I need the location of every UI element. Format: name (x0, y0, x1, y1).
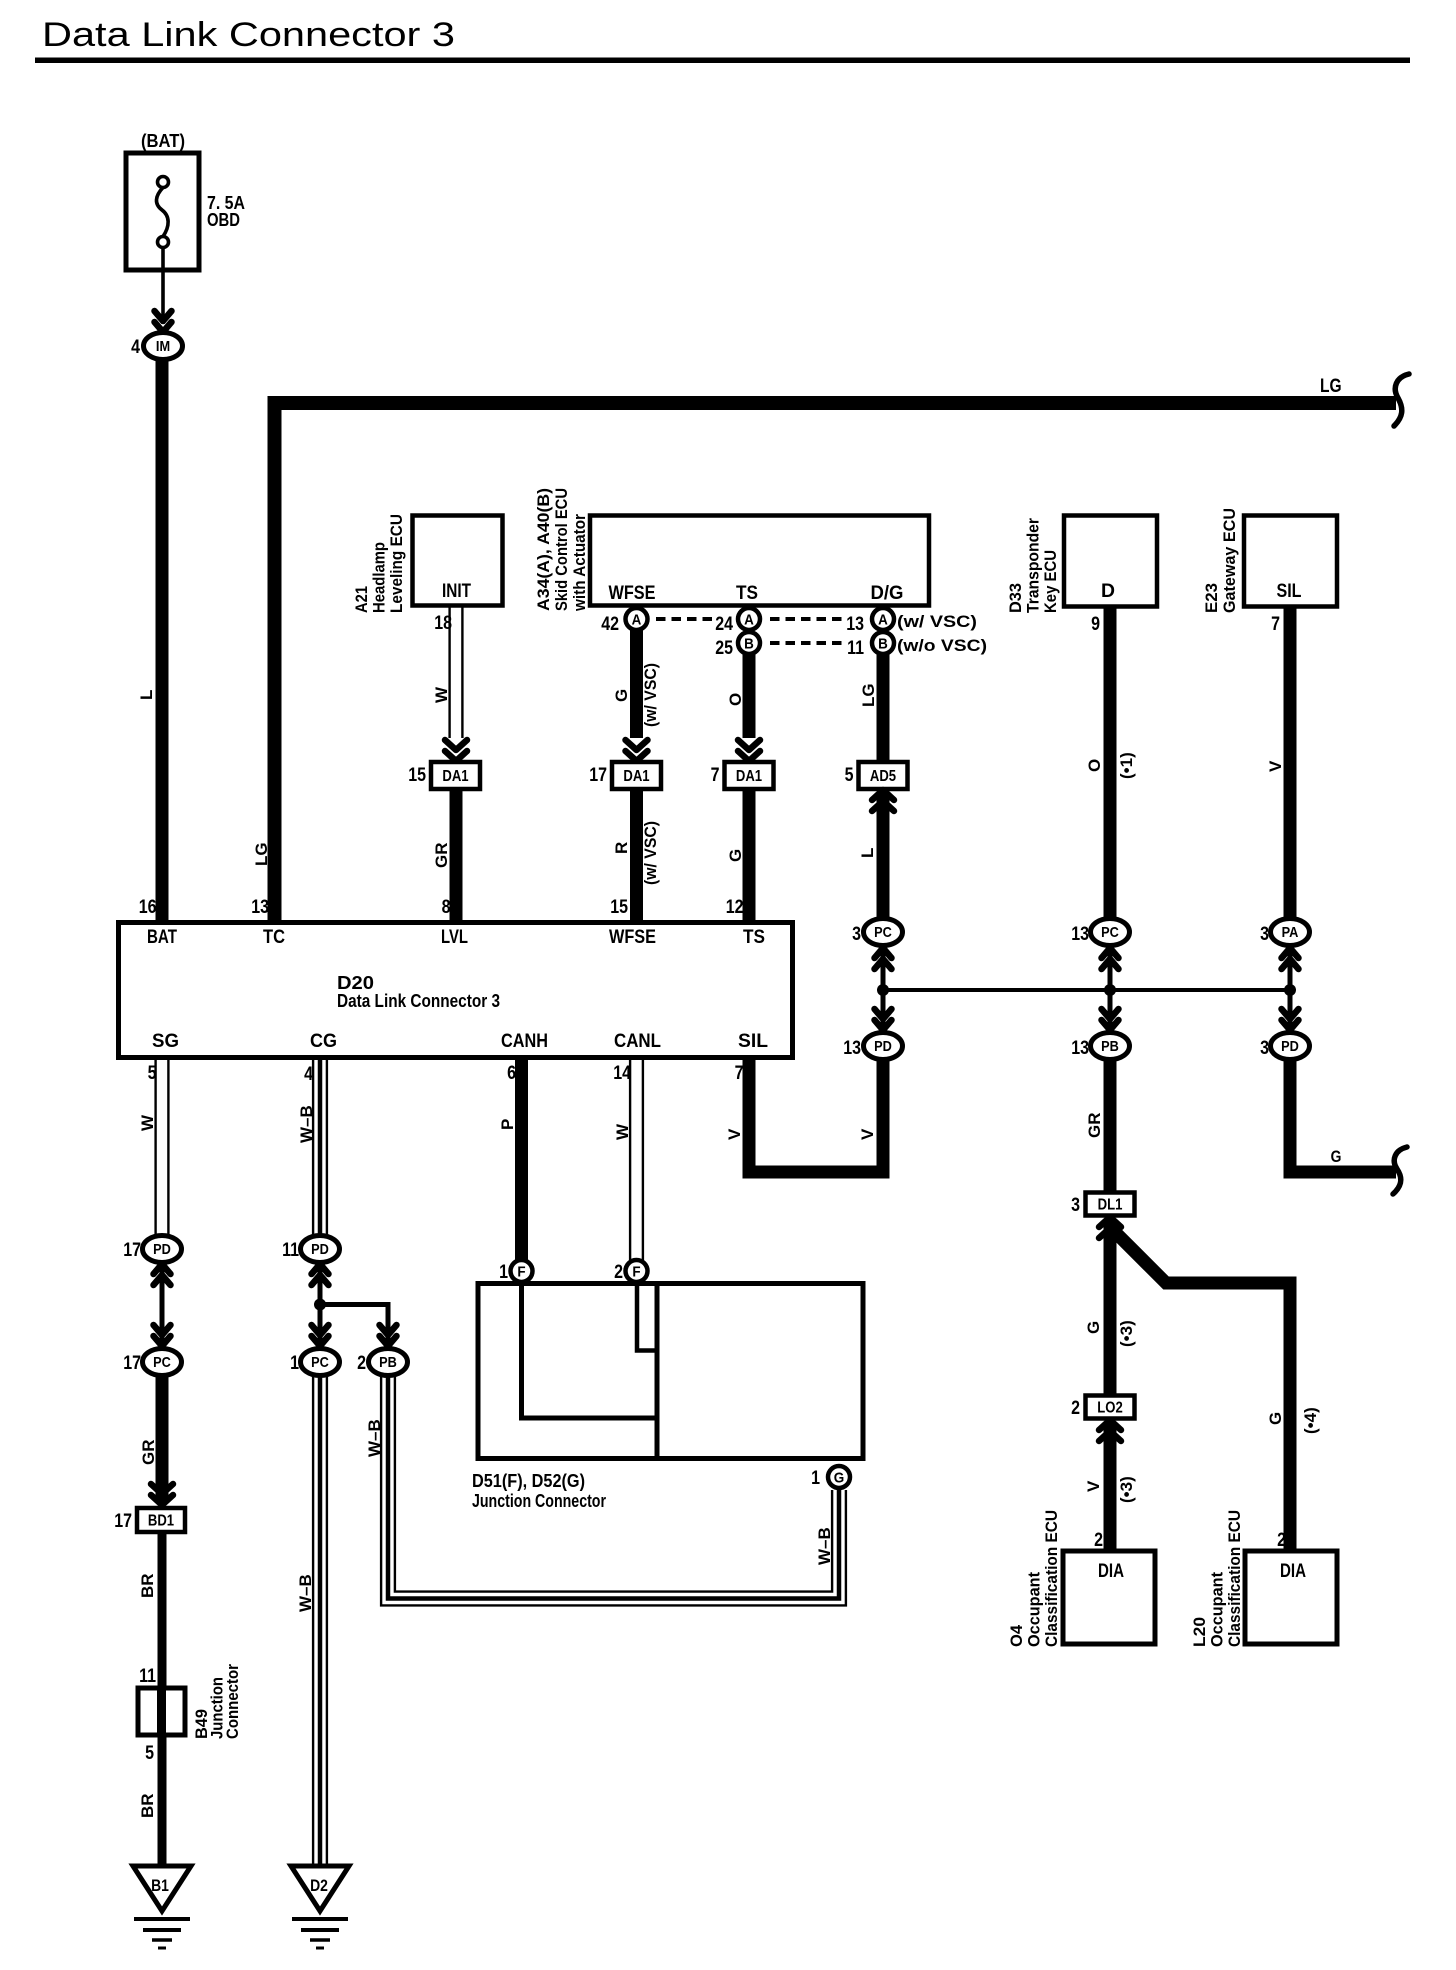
svg-text:O: O (1085, 759, 1104, 772)
svg-text:17: 17 (589, 764, 607, 786)
svg-text:(•3): (•3) (1117, 1476, 1136, 1503)
svg-text:Data Link Connector 3: Data Link Connector 3 (42, 16, 455, 54)
connector 11 PD (301, 1236, 340, 1263)
junction dot D33 col (1104, 984, 1116, 996)
svg-text:2: 2 (1094, 1529, 1103, 1551)
svg-text:PC: PC (1101, 924, 1119, 941)
fuse element symbol (156, 177, 168, 248)
svg-text:4: 4 (131, 336, 140, 358)
svg-text:Classification ECU: Classification ECU (1225, 1510, 1244, 1647)
svg-text:V: V (858, 1128, 877, 1140)
svg-text:L: L (137, 690, 156, 700)
wire O (TS to DA1) (743, 654, 756, 738)
svg-text:2: 2 (614, 1261, 623, 1283)
svg-text:2: 2 (357, 1352, 366, 1374)
arrow into DA1 (WFSE) (626, 740, 648, 761)
svg-text:11: 11 (282, 1239, 299, 1261)
svg-text:A: A (878, 612, 888, 629)
junction connector D51/D52 box (478, 1284, 863, 1459)
svg-text:13: 13 (251, 896, 269, 918)
ground B1 (133, 1866, 191, 1911)
svg-text:W: W (613, 1123, 632, 1140)
svg-text:BD1: BD1 (148, 1513, 174, 1530)
svg-text:9: 9 (1091, 613, 1100, 635)
svg-text:17: 17 (114, 1510, 132, 1532)
arrow into DA1 (LVL) (445, 740, 467, 761)
svg-text:1: 1 (499, 1261, 508, 1283)
svg-text:Classification ECU: Classification ECU (1042, 1510, 1061, 1647)
svg-text:Occupant: Occupant (1208, 1572, 1227, 1647)
svg-text:PD: PD (874, 1038, 892, 1055)
wire fuse to IM connector (161, 247, 165, 324)
wire branch diagonal to L20 (1110, 1227, 1290, 1551)
link 17PD to 17PC (160, 1266, 165, 1346)
svg-text:G: G (726, 849, 745, 862)
svg-text:1: 1 (290, 1352, 299, 1374)
wire LG bus (top horizontal to TC) (275, 403, 1397, 922)
svg-text:LG: LG (252, 842, 271, 866)
svg-text:R: R (612, 842, 631, 854)
connector 13 PB (1091, 1033, 1130, 1060)
svg-text:4: 4 (304, 1063, 313, 1085)
link PC to bus (D33 col) (1108, 947, 1113, 1031)
svg-text:15: 15 (610, 896, 628, 918)
svg-text:G: G (1331, 1147, 1342, 1166)
svg-text:LG: LG (1320, 376, 1342, 397)
svg-text:W–B: W–B (815, 1527, 834, 1565)
title underline (35, 58, 1410, 64)
svg-text:A34(A), A40(B): A34(A), A40(B) (534, 488, 553, 611)
svg-text:12: 12 (726, 896, 744, 918)
svg-text:16: 16 (139, 896, 157, 918)
svg-text:24: 24 (715, 613, 733, 635)
wire V *3 (LO2 to O4 DIA) (1104, 1424, 1117, 1551)
svg-text:13: 13 (846, 613, 864, 635)
connector 13 PD (864, 1033, 903, 1060)
G continuation hook (1393, 1147, 1407, 1194)
svg-text:TC: TC (263, 926, 285, 948)
svg-text:V: V (725, 1128, 744, 1140)
svg-text:GR: GR (1085, 1113, 1104, 1139)
svg-text:A21: A21 (352, 586, 371, 613)
svg-text:SIL: SIL (738, 1030, 768, 1052)
ECU box A21 Headlamp Leveling ECU (413, 516, 503, 606)
svg-text:DIA: DIA (1098, 1560, 1124, 1582)
svg-text:V: V (1266, 760, 1285, 772)
svg-text:1: 1 (811, 1467, 820, 1489)
svg-text:14: 14 (613, 1062, 631, 1084)
connector 4 IM (144, 333, 183, 360)
wire L (BAT to D20 pin16) (156, 358, 169, 922)
arrow down into 3 PD (1282, 1009, 1299, 1030)
svg-text:PA: PA (1282, 924, 1299, 941)
ECU box O4 Occupant Classification ECU (1063, 1551, 1155, 1644)
svg-text:G: G (834, 1470, 845, 1487)
svg-text:PC: PC (874, 924, 892, 941)
arrow up into 17 PD (154, 1264, 171, 1285)
svg-text:BR: BR (138, 1573, 157, 1598)
svg-text:PC: PC (311, 1354, 329, 1371)
svg-text:D2: D2 (310, 1876, 328, 1895)
svg-text:DA1: DA1 (442, 768, 468, 785)
connector 2 PB (369, 1349, 408, 1376)
svg-text:CANH: CANH (501, 1030, 548, 1052)
svg-text:PD: PD (1281, 1038, 1299, 1055)
svg-text:42: 42 (601, 613, 619, 635)
svg-text:B1: B1 (151, 1876, 169, 1895)
junction dot CG branch (314, 1299, 326, 1311)
svg-text:with Actuator: with Actuator (570, 514, 589, 612)
svg-text:PC: PC (153, 1354, 171, 1371)
svg-text:Transponder: Transponder (1024, 518, 1043, 613)
svg-text:Gateway ECU: Gateway ECU (1220, 508, 1239, 613)
wire O (D33 to PC) (1104, 607, 1117, 919)
junction block 5 AD5 (859, 762, 908, 789)
svg-text:LVL: LVL (441, 926, 468, 948)
junction block 17 DA1 (612, 762, 661, 789)
connector 1 F (511, 1260, 533, 1282)
svg-text:O: O (726, 693, 745, 706)
svg-text:O4: O4 (1007, 1624, 1026, 1647)
svg-text:B: B (878, 636, 888, 653)
wire G (3 PD to right) (1290, 1060, 1396, 1172)
ground D2 (291, 1866, 349, 1911)
svg-text:15: 15 (408, 764, 426, 786)
arrow into BD1 (151, 1484, 173, 1505)
svg-text:AD5: AD5 (870, 768, 896, 785)
svg-text:Headlamp: Headlamp (370, 542, 389, 613)
svg-text:6: 6 (507, 1062, 516, 1084)
arrow down into 1 PC (312, 1325, 329, 1346)
arrow up into 3 PA (1282, 948, 1299, 969)
svg-text:LG: LG (859, 683, 878, 707)
svg-text:SG: SG (152, 1030, 179, 1052)
svg-text:11: 11 (139, 1665, 156, 1687)
svg-text:(•4): (•4) (1301, 1407, 1320, 1434)
wire LG (D/G to AD5) (877, 654, 890, 764)
svg-text:G: G (1084, 1321, 1103, 1334)
svg-text:D/G: D/G (871, 582, 904, 604)
svg-text:A: A (744, 612, 754, 629)
connector 13 PC (1091, 919, 1130, 946)
svg-text:2: 2 (1071, 1397, 1080, 1419)
svg-text:GR: GR (432, 843, 451, 869)
junction block 3 DL1 (1086, 1193, 1135, 1216)
svg-text:8: 8 (442, 896, 451, 918)
svg-text:SIL: SIL (1277, 580, 1302, 602)
svg-text:3: 3 (852, 923, 861, 945)
svg-text:V: V (1084, 1480, 1103, 1492)
svg-text:(w/o VSC): (w/o VSC) (897, 636, 987, 655)
svg-text:Key ECU: Key ECU (1041, 550, 1060, 613)
svg-text:B: B (744, 636, 754, 653)
wire BR (BD1 to B49) (158, 1532, 167, 1690)
svg-text:D: D (1101, 580, 1115, 602)
arrow up into DL1 (1099, 1217, 1121, 1238)
svg-text:(BAT): (BAT) (141, 131, 185, 151)
svg-text:W: W (432, 686, 451, 703)
svg-text:3: 3 (1071, 1194, 1080, 1216)
svg-text:13: 13 (843, 1037, 861, 1059)
svg-text:5: 5 (845, 764, 854, 786)
svg-text:CG: CG (310, 1030, 337, 1052)
svg-text:Connector: Connector (223, 1664, 242, 1739)
fuse OBD 7.5A box (126, 153, 199, 270)
junction connector internal divider (655, 1286, 660, 1456)
svg-text:D20: D20 (337, 973, 374, 993)
connector 1 PC (301, 1349, 340, 1376)
svg-text:PB: PB (379, 1354, 397, 1371)
arrow down into 17 PC (154, 1325, 171, 1346)
connector 3 PC (864, 919, 903, 946)
wire W CANL (to 2 F) (630, 1060, 643, 1260)
svg-text:LO2: LO2 (1097, 1400, 1123, 1417)
wire L (AD5 to PC) (877, 793, 890, 919)
arrow up into 11 PD (312, 1264, 329, 1285)
svg-text:GR: GR (139, 1440, 158, 1466)
connector box D20 Data Link Connector 3 (119, 923, 793, 1058)
arrow into DA1 (TS) (738, 740, 760, 761)
svg-text:F: F (517, 1264, 525, 1281)
svg-text:17: 17 (123, 1352, 141, 1374)
svg-text:OBD: OBD (207, 210, 240, 230)
ECU box D33 Transponder Key ECU (1064, 516, 1157, 607)
wire W-B (1 PC to ground D2) (313, 1376, 327, 1868)
dashed link 24A-13A (770, 617, 843, 621)
svg-text:L20: L20 (1190, 1617, 1209, 1647)
svg-text:WFSE: WFSE (609, 926, 656, 948)
wire W (SG to 17 PD) (156, 1060, 169, 1236)
svg-text:13: 13 (1071, 1037, 1089, 1059)
svg-text:E23: E23 (1202, 583, 1221, 613)
connector 17 PC (143, 1349, 182, 1376)
svg-text:D51(F), D52(G): D51(F), D52(G) (472, 1471, 585, 1491)
svg-text:F: F (632, 1264, 640, 1281)
junction block 7 DA1 (725, 762, 774, 789)
svg-text:2: 2 (1277, 1529, 1286, 1551)
arrow up into LO2 (1099, 1420, 1121, 1441)
svg-text:25: 25 (715, 637, 733, 659)
svg-text:(•1): (•1) (1117, 752, 1136, 779)
arrow up into 13 PC (1102, 948, 1119, 969)
svg-text:5: 5 (145, 1742, 154, 1764)
svg-text:(w/ VSC): (w/ VSC) (641, 821, 660, 885)
wire W (INIT to DA1) (450, 606, 463, 738)
svg-text:DA1: DA1 (623, 768, 649, 785)
wire V (E23 to PA) (1284, 607, 1297, 919)
svg-text:A: A (632, 612, 642, 629)
branch wire to 2 PB (320, 1305, 388, 1347)
dashed link 25B-11B (770, 641, 843, 645)
dashed link 42A-24A (656, 617, 716, 621)
connector 3 PD (1271, 1033, 1310, 1060)
svg-text:11: 11 (847, 637, 864, 659)
svg-text:Leveling ECU: Leveling ECU (387, 514, 406, 613)
arrow into IM (155, 311, 172, 332)
svg-text:7: 7 (711, 764, 720, 786)
svg-text:PD: PD (153, 1241, 171, 1258)
svg-text:3: 3 (1260, 1037, 1269, 1059)
svg-text:Skid Control ECU: Skid Control ECU (552, 488, 571, 611)
arrow down into 13 PD (875, 1009, 892, 1030)
svg-text:IM: IM (156, 338, 170, 355)
ECU box E23 Gateway ECU (1244, 516, 1337, 607)
arrow down into 2 PB (380, 1325, 397, 1346)
arrow up into 3 PC (875, 948, 892, 969)
connector 2 F (626, 1260, 648, 1282)
svg-text:(w/ VSC): (w/ VSC) (641, 663, 660, 727)
junction block 2 LO2 (1086, 1396, 1135, 1419)
svg-text:BR: BR (138, 1793, 157, 1818)
svg-text:TS: TS (743, 926, 765, 948)
wire GR (13 PB to DL1) (1104, 1060, 1117, 1195)
svg-text:G: G (612, 689, 631, 702)
svg-text:13: 13 (1071, 923, 1089, 945)
svg-text:Occupant: Occupant (1025, 1572, 1044, 1647)
link PA to bus (E23 col) (1288, 947, 1293, 1031)
wire W-B (2 PB to 1 G) (381, 1377, 846, 1605)
wire G (DA1 to D20 TS) (743, 789, 756, 922)
svg-text:W: W (138, 1114, 157, 1131)
wire R (DA1 to D20 WFSE) (630, 789, 643, 922)
svg-text:INIT: INIT (442, 580, 471, 602)
svg-text:7: 7 (1271, 613, 1280, 635)
svg-text:CANL: CANL (614, 1030, 661, 1052)
arrow into AD5 (from below) (872, 790, 894, 811)
wire G *3 (DL1 to LO2) (1104, 1221, 1117, 1398)
ECU box L20 Occupant Classification ECU (1245, 1551, 1337, 1644)
svg-text:D33: D33 (1006, 583, 1025, 613)
svg-text:BAT: BAT (147, 926, 177, 948)
svg-text:L: L (858, 848, 877, 858)
svg-text:Junction Connector: Junction Connector (472, 1491, 606, 1511)
svg-text:7: 7 (735, 1062, 744, 1084)
svg-text:17: 17 (123, 1239, 141, 1261)
junction connector internal bus (1F) (522, 1286, 656, 1418)
svg-text:TS: TS (736, 582, 758, 604)
svg-text:DL1: DL1 (1098, 1197, 1123, 1214)
svg-text:G: G (1266, 1412, 1285, 1425)
svg-text:WFSE: WFSE (609, 582, 656, 604)
connector 3 PA (1271, 919, 1310, 946)
junction block 17 BD1 (137, 1508, 185, 1532)
svg-text:(•3): (•3) (1117, 1320, 1136, 1347)
wire W-B (CG to 11 PD) (313, 1060, 327, 1236)
wire BR (B49 to ground B1) (158, 1733, 167, 1868)
connector 1 G (828, 1466, 850, 1488)
wire V (D20 SIL to 13 PD) (749, 1060, 883, 1172)
wire B CANH (to 1 F) (515, 1060, 528, 1262)
junction block 15 DA1 (431, 762, 480, 789)
svg-text:DA1: DA1 (736, 768, 762, 785)
ECU box A34/A40 Skid Control ECU with Actuator (590, 516, 929, 606)
link 11PD to 1PC (318, 1266, 323, 1346)
svg-text:P: P (498, 1119, 517, 1130)
svg-text:3: 3 (1260, 923, 1269, 945)
wire G w/VSC (WFSE to DA1) (630, 630, 643, 738)
svg-text:W–B: W–B (297, 1105, 316, 1143)
svg-text:PD: PD (311, 1241, 329, 1258)
junction dot AD col (877, 984, 889, 996)
svg-text:Data Link Connector 3: Data Link Connector 3 (337, 991, 500, 1011)
svg-text:DIA: DIA (1280, 1560, 1306, 1582)
wire GR (17 PC to BD1) (156, 1376, 169, 1502)
bus wire between PC/PA and PD/PB rows (883, 988, 1290, 992)
connector 17 PD (143, 1236, 182, 1263)
junction connector internal channel (2F) (637, 1286, 655, 1351)
junction connector B49 (138, 1688, 185, 1735)
svg-text:W–B: W–B (365, 1419, 384, 1457)
LG continuation hook (1394, 374, 1409, 426)
svg-text:W–B: W–B (296, 1574, 315, 1612)
junction dot E23 col (1284, 984, 1296, 996)
arrow down into 13 PB (1102, 1009, 1119, 1030)
svg-text:PB: PB (1101, 1038, 1119, 1055)
svg-text:(w/ VSC): (w/ VSC) (897, 612, 977, 631)
wire GR (DA1 to D20 LVL) (450, 789, 463, 922)
link PC to bus (AD col) (881, 947, 886, 1031)
